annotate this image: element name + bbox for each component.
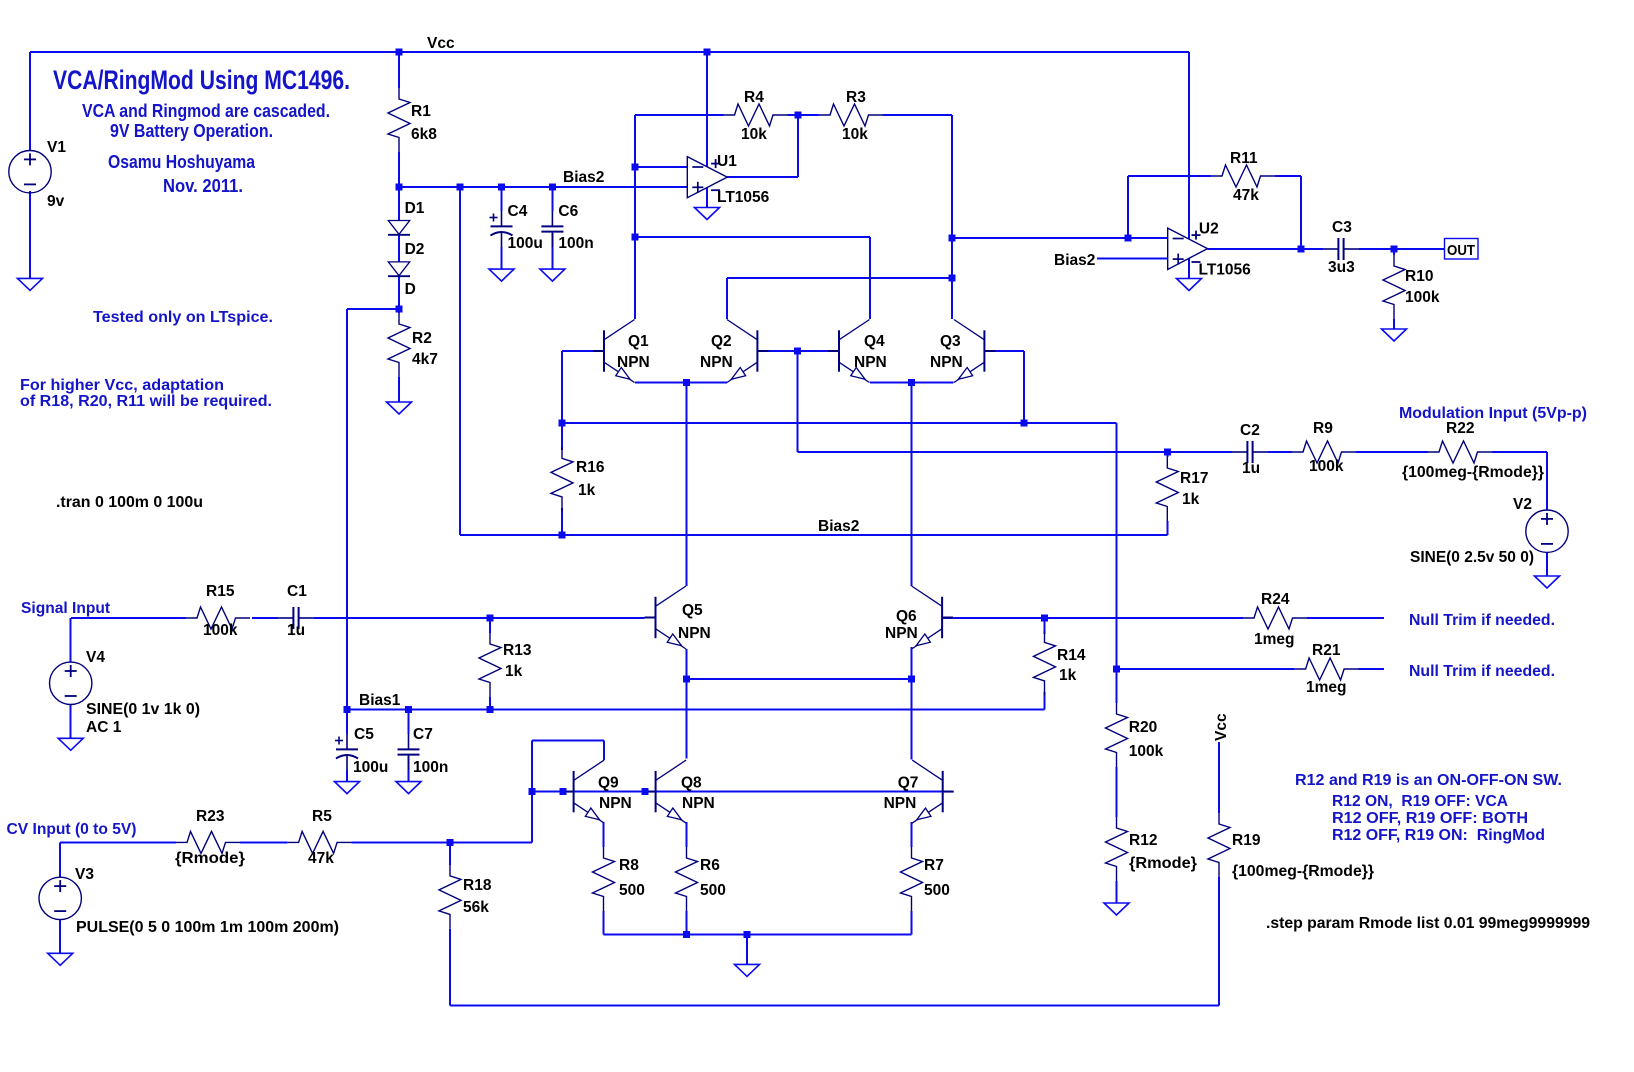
svg-text:C6: C6 xyxy=(558,203,578,220)
svg-text:R17: R17 xyxy=(1180,470,1208,487)
svg-text:100k: 100k xyxy=(1405,289,1440,306)
svg-text:Modulation Input (5Vp-p): Modulation Input (5Vp-p) xyxy=(1399,405,1587,422)
svg-text:R5: R5 xyxy=(312,808,332,825)
svg-text:Q4: Q4 xyxy=(864,333,885,350)
svg-text:R12 and R19 is an ON-OFF-ON SW: R12 and R19 is an ON-OFF-ON SW. xyxy=(1295,772,1562,789)
svg-text:R12 ON, R19 OFF: VCA: R12 ON, R19 OFF: VCA xyxy=(1332,793,1508,810)
svg-text:Q8: Q8 xyxy=(681,775,702,792)
svg-text:3u3: 3u3 xyxy=(1328,259,1355,276)
svg-text:Q6: Q6 xyxy=(896,608,917,625)
svg-text:R12 OFF, R19 OFF: BOTH: R12 OFF, R19 OFF: BOTH xyxy=(1332,810,1528,827)
svg-text:10k: 10k xyxy=(741,126,767,143)
svg-text:PULSE(0 5 0 100m 1m 100m 200m): PULSE(0 5 0 100m 1m 100m 200m) xyxy=(76,919,339,936)
svg-text:LT1056: LT1056 xyxy=(1199,262,1252,279)
svg-text:1k: 1k xyxy=(1059,667,1077,684)
svg-text:VCA and Ringmod are cascaded.: VCA and Ringmod are cascaded. xyxy=(82,100,330,121)
svg-text:C3: C3 xyxy=(1332,219,1352,236)
svg-text:Q3: Q3 xyxy=(940,333,961,350)
svg-text:100n: 100n xyxy=(558,235,593,252)
svg-text:Q2: Q2 xyxy=(711,333,732,350)
svg-text:R19: R19 xyxy=(1232,832,1261,849)
svg-text:R10: R10 xyxy=(1405,268,1433,285)
svg-text:R14: R14 xyxy=(1057,647,1086,664)
svg-text:R11: R11 xyxy=(1230,150,1258,167)
svg-text:Null Trim if needed.: Null Trim if needed. xyxy=(1409,663,1555,680)
svg-text:9v: 9v xyxy=(47,193,65,210)
svg-text:NPN: NPN xyxy=(682,795,715,812)
svg-text:D: D xyxy=(405,281,416,298)
svg-text:10k: 10k xyxy=(842,126,868,143)
svg-text:LT1056: LT1056 xyxy=(717,189,770,206)
svg-text:1meg: 1meg xyxy=(1254,631,1295,648)
svg-text:Q1: Q1 xyxy=(628,333,649,350)
svg-text:Osamu Hoshuyama: Osamu Hoshuyama xyxy=(108,151,256,172)
svg-text:1k: 1k xyxy=(505,663,523,680)
svg-text:100u: 100u xyxy=(508,235,543,252)
svg-text:100k: 100k xyxy=(1129,743,1164,760)
svg-text:U1: U1 xyxy=(717,153,737,170)
svg-text:NPN: NPN xyxy=(930,354,963,371)
svg-text:NPN: NPN xyxy=(884,795,917,812)
svg-text:R16: R16 xyxy=(576,459,605,476)
svg-text:D2: D2 xyxy=(405,241,425,258)
svg-text:R8: R8 xyxy=(619,857,639,874)
svg-text:6k8: 6k8 xyxy=(411,126,437,143)
svg-text:500: 500 xyxy=(924,882,950,899)
svg-text:Q7: Q7 xyxy=(898,775,919,792)
svg-text:Vcc: Vcc xyxy=(1213,713,1230,741)
svg-text:100k: 100k xyxy=(1309,458,1344,475)
svg-text:SINE(0 1v 1k 0): SINE(0 1v 1k 0) xyxy=(86,701,200,718)
svg-text:Null Trim if needed.: Null Trim if needed. xyxy=(1409,612,1555,629)
svg-text:1u: 1u xyxy=(287,622,305,639)
svg-text:V1: V1 xyxy=(47,139,66,156)
svg-text:{Rmode}: {Rmode} xyxy=(175,850,245,867)
svg-text:R22: R22 xyxy=(1446,420,1474,437)
svg-text:of R18, R20, R11 will be requi: of R18, R20, R11 will be required. xyxy=(20,393,272,410)
svg-text:R12: R12 xyxy=(1129,832,1157,849)
svg-text:Bias2: Bias2 xyxy=(818,518,859,535)
svg-text:CV Input (0 to 5V): CV Input (0 to 5V) xyxy=(7,821,137,838)
svg-text:AC 1: AC 1 xyxy=(86,719,122,736)
svg-text:Bias2: Bias2 xyxy=(1054,252,1095,269)
svg-text:R13: R13 xyxy=(503,642,532,659)
svg-text:Vcc: Vcc xyxy=(427,35,455,52)
svg-text:R9: R9 xyxy=(1313,420,1333,437)
svg-text:R23: R23 xyxy=(196,808,225,825)
svg-text:9V Battery Operation.: 9V Battery Operation. xyxy=(110,120,273,141)
svg-text:500: 500 xyxy=(619,882,645,899)
svg-text:.tran 0 100m 0 100u: .tran 0 100m 0 100u xyxy=(56,494,203,511)
svg-text:Tested only on LTspice.: Tested only on LTspice. xyxy=(93,309,273,326)
svg-text:C4: C4 xyxy=(508,203,528,220)
svg-text:47k: 47k xyxy=(1233,187,1259,204)
svg-text:Signal Input: Signal Input xyxy=(21,600,111,617)
svg-text:1k: 1k xyxy=(1182,491,1200,508)
svg-text:R12 OFF, R19 ON: RingMod: R12 OFF, R19 ON: RingMod xyxy=(1332,827,1545,844)
svg-text:1k: 1k xyxy=(578,482,596,499)
svg-text:SINE(0 2.5v 50 0): SINE(0 2.5v 50 0) xyxy=(1410,549,1534,566)
svg-text:.step param Rmode list 0.01 99: .step param Rmode list 0.01 99meg9999999 xyxy=(1266,915,1590,932)
svg-text:NPN: NPN xyxy=(599,795,632,812)
svg-text:R6: R6 xyxy=(700,857,720,874)
svg-text:1u: 1u xyxy=(1242,460,1260,477)
svg-text:R2: R2 xyxy=(412,330,432,347)
svg-text:4k7: 4k7 xyxy=(412,351,438,368)
svg-text:Q9: Q9 xyxy=(598,775,619,792)
svg-text:R15: R15 xyxy=(206,583,235,600)
svg-text:U2: U2 xyxy=(1199,221,1219,238)
svg-text:{100meg-{Rmode}}: {100meg-{Rmode}} xyxy=(1402,464,1544,481)
svg-text:NPN: NPN xyxy=(854,354,887,371)
svg-text:R7: R7 xyxy=(924,857,944,874)
svg-text:VCA/RingMod Using MC1496.: VCA/RingMod Using MC1496. xyxy=(53,65,350,95)
svg-text:C7: C7 xyxy=(413,726,433,743)
svg-text:Bias1: Bias1 xyxy=(359,692,401,709)
svg-text:{Rmode}: {Rmode} xyxy=(1129,855,1197,872)
svg-text:C2: C2 xyxy=(1240,422,1260,439)
svg-text:OUT: OUT xyxy=(1447,242,1475,259)
svg-text:NPN: NPN xyxy=(678,625,711,642)
svg-text:NPN: NPN xyxy=(885,625,918,642)
svg-text:V3: V3 xyxy=(75,866,94,883)
svg-text:100k: 100k xyxy=(203,622,238,639)
svg-text:NPN: NPN xyxy=(617,354,650,371)
svg-text:C5: C5 xyxy=(354,726,374,743)
svg-text:R21: R21 xyxy=(1312,642,1341,659)
svg-text:500: 500 xyxy=(700,882,726,899)
svg-text:C1: C1 xyxy=(287,583,307,600)
svg-text:NPN: NPN xyxy=(700,354,733,371)
svg-text:R4: R4 xyxy=(744,89,764,106)
svg-text:R18: R18 xyxy=(463,877,492,894)
svg-text:Nov. 2011.: Nov. 2011. xyxy=(163,175,243,196)
svg-text:For higher Vcc, adaptation: For higher Vcc, adaptation xyxy=(20,377,224,394)
svg-text:R24: R24 xyxy=(1261,591,1290,608)
svg-text:Q5: Q5 xyxy=(682,602,703,619)
svg-text:R3: R3 xyxy=(846,89,866,106)
svg-text:47k: 47k xyxy=(308,850,334,867)
svg-text:100u: 100u xyxy=(353,759,388,776)
svg-text:D1: D1 xyxy=(405,200,425,217)
svg-text:V2: V2 xyxy=(1513,496,1532,513)
svg-text:R20: R20 xyxy=(1129,719,1157,736)
svg-text:100n: 100n xyxy=(413,759,448,776)
svg-text:1meg: 1meg xyxy=(1306,679,1347,696)
svg-text:56k: 56k xyxy=(463,899,489,916)
svg-text:V4: V4 xyxy=(86,649,105,666)
svg-text:Bias2: Bias2 xyxy=(563,169,604,186)
svg-text:R1: R1 xyxy=(411,103,431,120)
svg-text:{100meg-{Rmode}}: {100meg-{Rmode}} xyxy=(1232,863,1374,880)
